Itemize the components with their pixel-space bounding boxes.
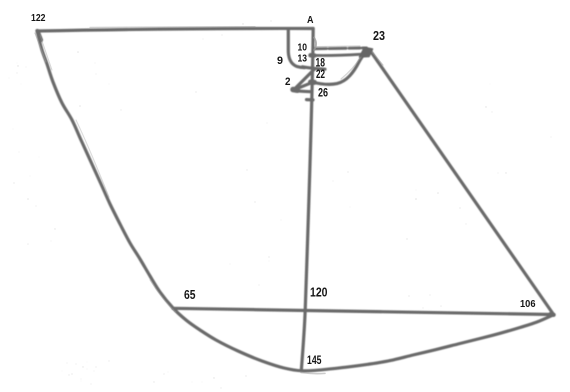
svg-text:2: 2 xyxy=(285,76,291,88)
sketch hem echo right of 145 xyxy=(301,373,325,374)
sketch corner 122 xyxy=(35,33,46,62)
svg-text:122: 122 xyxy=(31,13,46,24)
svg-text:106: 106 xyxy=(520,298,536,310)
wire neck line down from top xyxy=(288,31,304,68)
node vertex 106 blob xyxy=(551,312,554,317)
wire tick 18 xyxy=(303,67,326,69)
wire dart bottom stroke 26 xyxy=(294,90,311,91)
sketch armhole echo xyxy=(341,57,361,79)
sketch overdraw strokes xyxy=(35,27,383,374)
sketch A vertical paren xyxy=(314,38,316,51)
svg-text:145: 145 xyxy=(307,353,322,367)
node dart vertex blob xyxy=(293,87,298,93)
wire armhole curve 22 to 23 xyxy=(312,51,370,85)
wire diagonal 23 to 106 xyxy=(370,51,553,314)
wire dart diagonal xyxy=(295,69,314,88)
wire center vertical A to 145 xyxy=(301,29,313,371)
svg-text:13: 13 xyxy=(298,53,308,65)
sketch top line echo xyxy=(90,26,255,29)
svg-text:23: 23 xyxy=(373,29,385,43)
node lower line left end blob xyxy=(311,53,315,58)
svg-text:9: 9 xyxy=(277,55,283,67)
wire top edge 122 to A xyxy=(37,28,313,31)
sketch left curve echo xyxy=(76,120,109,197)
tick 26 on vertical xyxy=(307,98,314,102)
wire outer curve 122-65-145-106 xyxy=(37,31,553,371)
svg-text:65: 65 xyxy=(184,288,196,302)
wire dart lower edge to 22 xyxy=(294,82,313,90)
svg-text:120: 120 xyxy=(310,286,328,300)
node peak 23 blob xyxy=(360,48,373,58)
wire lower line to 23 (level 13) xyxy=(311,54,363,55)
wire upper line to 23 (dashed, level 10) xyxy=(314,46,367,50)
node junction 22 blob xyxy=(311,80,315,85)
sketch upper dashed echo xyxy=(316,45,360,48)
svg-text:22: 22 xyxy=(316,69,325,81)
sketch peak echo xyxy=(372,52,383,65)
svg-text:A: A xyxy=(307,14,314,26)
wire chord 65 to 106 xyxy=(173,308,553,314)
svg-text:18: 18 xyxy=(316,58,326,70)
node corner 122 blob xyxy=(38,31,42,40)
svg-text:26: 26 xyxy=(318,88,328,100)
